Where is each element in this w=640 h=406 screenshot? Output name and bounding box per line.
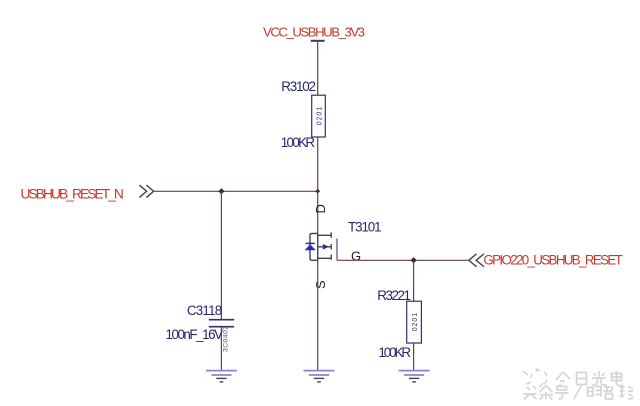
capacitor C3118 bottom plate (209, 326, 234, 328)
ground symbol under source (304, 371, 335, 382)
svg-text:S: S (313, 280, 328, 289)
port chevron << for GPIO220_USBHUB_RESET (469, 254, 484, 267)
gate arrow (323, 244, 329, 250)
svg-text:3C0402: 3C0402 (223, 326, 230, 352)
svg-text:R3221: R3221 (377, 288, 411, 303)
watermark text line 1 (today brand glyphs) (556, 371, 624, 386)
watermark logo scribble (523, 368, 547, 386)
resistor R3102 body (312, 95, 326, 137)
wire drain from junction (317, 191, 319, 233)
svg-text:100KR: 100KR (281, 135, 316, 150)
ground symbol under C3118 (206, 371, 237, 382)
svg-text:100nF_16V: 100nF_16V (166, 327, 224, 342)
wire C3118 to ground (220, 327, 222, 370)
channel segment middle (330, 244, 332, 249)
body diode cathode bar (306, 242, 315, 244)
channel segment drain (330, 232, 332, 237)
power bar symbol (311, 40, 325, 42)
wire R3221 to ground (413, 343, 415, 370)
wire junction down to C3118 (220, 191, 222, 319)
wire power bar to R3102 (317, 42, 319, 96)
middle stub (318, 246, 332, 248)
resistor R3221 body (407, 301, 422, 343)
channel segment source (330, 255, 332, 260)
junction node at R3221 branch (410, 257, 416, 263)
port chevron >> for USBHUB_RESET_N (139, 185, 153, 197)
svg-text:100KR: 100KR (378, 345, 411, 360)
svg-text:T3101: T3101 (348, 219, 382, 234)
svg-text:0201: 0201 (316, 107, 323, 126)
capacitor C3118 top plate (209, 319, 234, 321)
svg-text:R3102: R3102 (281, 79, 316, 94)
wire USBHUB_RESET_N horizontal (154, 190, 318, 192)
svg-text:C3118: C3118 (187, 303, 222, 318)
svg-text:VCC_USBHUB_3V3: VCC_USBHUB_3V3 (263, 25, 365, 40)
source stub (318, 257, 332, 259)
body diode triangle (305, 244, 316, 250)
svg-text:USBHUB_RESET_N: USBHUB_RESET_N (21, 186, 124, 201)
junction node at drain (315, 189, 320, 194)
transistor T3101 N-MOSFET symbol (310, 232, 331, 260)
wire source to ground (317, 260, 319, 370)
svg-text:G: G (351, 249, 361, 264)
watermark text line 2 (headline account glyphs) (524, 386, 633, 400)
wire junction down to R3221 (413, 260, 415, 301)
body diode loop (310, 234, 318, 261)
svg-text:GPIO220_USBHUB_RESET: GPIO220_USBHUB_RESET (483, 252, 622, 267)
svg-text:D: D (313, 204, 328, 213)
ground symbol under R3221 (399, 371, 430, 382)
channel center line (317, 234, 319, 261)
gate bar (336, 239, 338, 261)
drain stub (318, 234, 332, 236)
junction node at C3118 branch (218, 188, 224, 194)
wire R3102 to horizontal net (317, 137, 319, 191)
svg-text:0201: 0201 (412, 313, 419, 332)
wire gate to GPIO port (337, 259, 469, 261)
